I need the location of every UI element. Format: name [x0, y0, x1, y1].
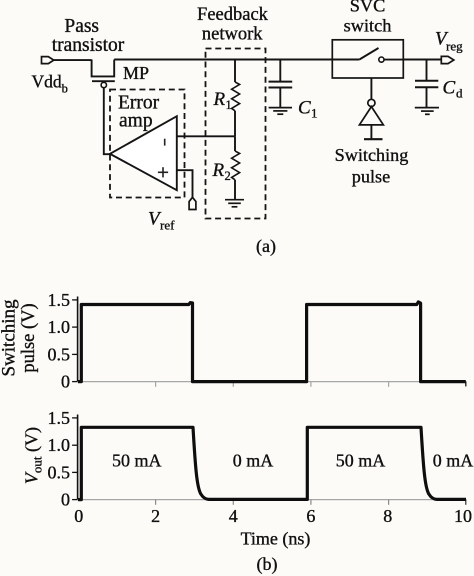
svg-text:C: C — [298, 98, 311, 119]
dashed box feedback network — [206, 49, 266, 219]
svg-text:0: 0 — [61, 372, 70, 392]
wire SVC box to inverter — [370, 78, 372, 99]
top plot y-axis — [77, 297, 79, 382]
svg-text:reg: reg — [446, 39, 463, 54]
wire plus input to Vref terminal — [177, 170, 193, 197]
svg-text:C: C — [443, 78, 456, 99]
terminal Vref pin — [189, 197, 196, 209]
svg-text:R: R — [213, 89, 226, 110]
svg-text:Vout (V): Vout (V) — [22, 427, 45, 484]
Vout trace — [78, 427, 466, 499]
wire minus input to feedback node — [177, 135, 235, 137]
svg-text:MP: MP — [123, 63, 149, 83]
bottom plot y-axis title Vout (V) — [22, 427, 45, 484]
ground under C1 — [269, 108, 292, 115]
inverter triangle — [359, 107, 383, 125]
wire MP drain to SVC switch (top rail) — [114, 59, 332, 61]
svg-text:pulse (V): pulse (V) — [19, 303, 39, 372]
plus input marker — [158, 167, 168, 177]
switch blade — [332, 59, 359, 61]
svg-text:ref: ref — [160, 218, 175, 233]
svg-text:amp: amp — [119, 111, 153, 132]
wire inverter to pulse source — [370, 125, 372, 139]
svg-text:pulse: pulse — [352, 166, 390, 186]
inverter bubble — [368, 99, 375, 106]
current labels — [112, 450, 473, 470]
svg-text:Pass: Pass — [64, 16, 99, 37]
bottom plot y ticks — [72, 418, 78, 500]
svg-text:50 mA: 50 mA — [112, 450, 162, 470]
svg-text:1: 1 — [311, 106, 318, 121]
svg-text:2: 2 — [151, 506, 160, 526]
wire MP gate to error amp input — [104, 88, 110, 155]
ground under R2 — [225, 200, 244, 207]
bottom plot y tick labels — [48, 408, 71, 510]
svg-text:(b): (b) — [257, 554, 278, 575]
svg-text:network: network — [202, 25, 263, 45]
svg-text:1.5: 1.5 — [48, 290, 71, 310]
input terminal Vddb pin — [42, 57, 54, 64]
svg-text:Switching: Switching — [0, 299, 20, 377]
svg-text:0: 0 — [74, 506, 83, 526]
svg-text:0 mA: 0 mA — [433, 450, 474, 470]
top plot x ticks — [156, 382, 389, 387]
SVC switch box — [332, 40, 403, 78]
svg-text:Time (ns): Time (ns) — [241, 529, 311, 550]
wire input to MP source — [54, 59, 92, 62]
bottom plot x-axis — [78, 499, 467, 501]
svg-text:transistor: transistor — [52, 35, 125, 56]
top plot y tick labels — [48, 290, 71, 392]
svg-text:Switching: Switching — [335, 145, 409, 165]
resistor R2 — [232, 136, 240, 199]
top plot y ticks — [72, 300, 78, 382]
resistor R1 — [232, 60, 240, 137]
switch contact circle — [379, 57, 384, 62]
op-amp U1 error amp triangle — [110, 116, 177, 190]
bottom plot x ticks — [156, 500, 466, 505]
svg-text:8: 8 — [383, 506, 392, 526]
svg-text:10: 10 — [454, 506, 472, 526]
svg-text:(a): (a) — [256, 236, 276, 257]
svg-text:6: 6 — [306, 506, 315, 526]
svg-text:d: d — [456, 86, 463, 101]
pulse source bar — [364, 138, 383, 140]
output terminal Vreg pin — [441, 56, 454, 63]
svg-text:R: R — [212, 160, 225, 181]
svg-text:4: 4 — [229, 506, 238, 526]
svg-text:switch: switch — [344, 16, 392, 36]
svg-text:1: 1 — [226, 98, 232, 112]
capacitor C1 — [269, 60, 293, 108]
svg-text:2: 2 — [225, 169, 231, 183]
svg-text:50 mA: 50 mA — [336, 450, 386, 470]
circuit text labels — [32, 0, 464, 257]
ground under Cd — [415, 108, 439, 115]
dashed box error amp — [110, 90, 185, 198]
svg-text:1.0: 1.0 — [48, 317, 71, 337]
svg-text:0: 0 — [61, 490, 70, 510]
wire SVC switch to output — [403, 59, 441, 61]
svg-text:0.5: 0.5 — [48, 344, 71, 364]
svg-text:SVC: SVC — [350, 0, 386, 16]
minus input marker — [164, 139, 166, 146]
svg-text:0.5: 0.5 — [48, 462, 71, 482]
capacitor Cd — [415, 60, 438, 108]
bottom plot x tick labels — [74, 506, 472, 526]
switching pulse trace — [78, 302, 466, 382]
top plot x-axis — [78, 381, 467, 383]
svg-text:1.0: 1.0 — [48, 435, 71, 455]
svg-text:1.5: 1.5 — [48, 408, 71, 428]
svg-text:Feedback: Feedback — [197, 5, 269, 25]
transistor MP — [92, 60, 115, 88]
bottom plot y-axis — [77, 415, 79, 500]
svg-text:0 mA: 0 mA — [233, 450, 274, 470]
